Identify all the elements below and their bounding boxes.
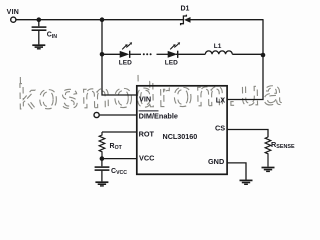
terminal DIM/Enable input [94,112,99,117]
wire left branch vertical (node to VIN pin) [102,19,137,95]
resistor ROT [99,132,122,159]
capacitor CIN [32,21,47,44]
ground (GND pin) [240,180,253,184]
wire dots (LED string continuation) [143,53,145,55]
LED LED1 [119,42,132,66]
diode D1 (schottky) [181,6,191,26]
wire top rail left (VIN to D1) [16,19,183,21]
svg-text:CS: CS [215,123,225,132]
capacitor CVCC [95,160,110,181]
wire DIM/Enable input [99,114,136,116]
svg-text:L1: L1 [214,43,222,50]
LED LED2 [165,42,180,66]
ground (CVCC) [95,182,108,186]
svg-text:D1: D1 [181,6,190,13]
svg-text:LED: LED [119,59,132,66]
wire top rail right (D1 to corner) [190,19,263,21]
wire LED string start [102,53,120,55]
node junction LED branch [100,52,105,57]
svg-text:VIN: VIN [139,95,151,104]
wire CS pin to RSENSE [227,130,268,138]
svg-text:GND: GND [208,157,224,166]
svg-text:VIN: VIN [7,9,20,16]
node junction top of left branch [100,17,105,22]
watermark kosmodrom.ua [17,72,285,117]
node junction ROT/VCC/CVCC [100,156,105,161]
ground (CIN) [32,45,45,49]
svg-text:LX: LX [216,95,225,104]
wire between LED1 and dots [130,53,141,55]
wire VCC pin [102,158,137,160]
wire LED2 to L1 [176,53,205,55]
svg-text:NCL30160: NCL30160 [163,132,198,141]
wire right vertical down to LX [227,19,263,99]
node junction L1 / right vertical [261,53,266,58]
svg-text:ROT: ROT [139,129,155,138]
op-amp U1 NCL30160 box [137,86,227,175]
wire GND pin [227,163,246,180]
node junction at CIN [37,17,42,22]
resistor RSENSE [265,137,295,167]
wire L1 to right vertical [232,53,263,55]
terminal VIN [11,17,16,22]
inductor L1 [205,43,232,54]
svg-text:DIM/Enable: DIM/Enable [139,112,178,121]
ground (RSENSE) [262,168,275,172]
wire dots to LED2 [157,53,169,55]
wire ROT pin [102,131,137,133]
svg-text:VCC: VCC [139,154,155,163]
svg-text:LED: LED [165,59,178,66]
